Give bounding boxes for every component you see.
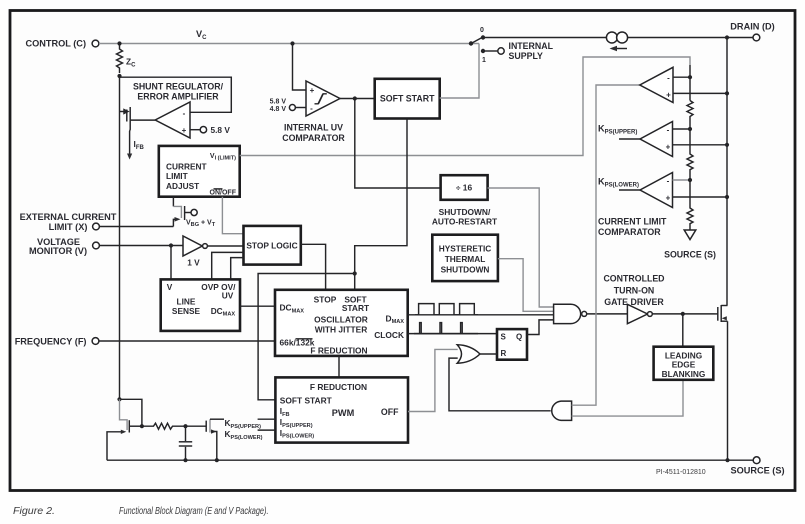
resistor ladder R1 [687, 101, 693, 130]
label INTERNAL UV COMPARATOR [282, 123, 345, 143]
svg-text:CURRENT LIMIT: CURRENT LIMIT [598, 217, 667, 227]
wire bottom source rail [107, 459, 753, 461]
wire current source to drain node [628, 37, 753, 39]
node junction dot gate node [183, 424, 187, 428]
wire NAND output to driver [587, 313, 628, 315]
svg-text:START: START [342, 303, 370, 313]
wire Q output to NAND [527, 320, 554, 335]
svg-text:TURN-ON: TURN-ON [614, 285, 655, 295]
op-amp current limit comparator 3 K_PS(LOWER) [640, 173, 673, 208]
resistor Z_C [117, 44, 137, 74]
wire D_MAX to NAND [408, 314, 554, 316]
svg-text:V: V [167, 282, 173, 292]
wire I_PS(UPPER) into PWM [258, 418, 276, 420]
pin SOURCE (S) bottom right [730, 457, 784, 476]
svg-text:+: + [182, 126, 187, 135]
node junction dot left mosfet drain [140, 424, 144, 428]
svg-text:1 V: 1 V [187, 258, 200, 268]
node junction dot at Z_C top [117, 41, 121, 45]
svg-text:SOFT START: SOFT START [280, 395, 333, 405]
wire comp3 plus stub to drain [673, 196, 728, 198]
svg-text:CONTROLLED: CONTROLLED [603, 273, 664, 283]
wire sense ladder segments [689, 65, 691, 101]
wire UV output to soft start [340, 98, 375, 100]
op-amp internal UV comparator [306, 81, 340, 116]
wire V_C rail from CONTROL to switch pivot [99, 43, 479, 45]
pin FREQUENCY (F) [15, 336, 99, 346]
node junction dots on drain line [725, 91, 729, 95]
wire MOSFET source down to source rail [727, 321, 729, 460]
svg-text:AUTO-RESTART: AUTO-RESTART [432, 217, 498, 227]
wire soft start right to internal supply switch [440, 44, 479, 99]
wire V branch down to line sense [170, 246, 172, 280]
wire OVP from line sense to stop logic [212, 252, 244, 279]
svg-text:PI-4511-012810: PI-4511-012810 [656, 469, 706, 476]
svg-text:+: + [666, 194, 671, 203]
svg-text:Functional Block Diagram (E an: Functional Block Diagram (E and V Packag… [119, 506, 269, 517]
pin EXTERNAL CURRENT LIMIT (X) [20, 212, 117, 232]
svg-text:SOURCE (S): SOURCE (S) [664, 250, 716, 260]
svg-text:DRAIN (D): DRAIN (D) [730, 21, 774, 31]
svg-text:5.8 V: 5.8 V [211, 125, 231, 135]
wire thermal output to NAND [498, 259, 554, 312]
svg-text:÷ 16: ÷ 16 [456, 183, 473, 193]
svg-text:F REDUCTION: F REDUCTION [310, 382, 367, 392]
wire comp2 minus stub [673, 128, 691, 130]
pin DRAIN (D) [730, 21, 774, 41]
transistor bottom-left bias MOSFET [107, 397, 142, 460]
svg-text:CONTROL (C): CONTROL (C) [25, 38, 86, 48]
svg-text:SHUTDOWN/: SHUTDOWN/ [439, 207, 491, 217]
svg-text:LINE: LINE [177, 296, 196, 306]
wire error-amp feedback loop [120, 77, 232, 112]
wire soft start bottom to oscillator/PWM soft-start [355, 119, 407, 290]
wire ON/OFF gray to stop logic [222, 197, 243, 234]
svg-text:-: - [667, 126, 670, 135]
svg-text:PWM: PWM [332, 408, 355, 418]
capacitor bottom bias [179, 426, 192, 460]
node junction dot drain branch [725, 35, 729, 39]
svg-text:SENSE: SENSE [172, 306, 201, 316]
label SHUTDOWN/AUTO-RESTART [432, 207, 498, 227]
wire 1V output to stop logic [207, 245, 243, 247]
svg-text:R: R [501, 349, 507, 358]
box divide-by-16 [441, 175, 488, 200]
box CURRENT LIMIT ADJUST [159, 146, 240, 197]
svg-text:LIMIT: LIMIT [166, 171, 188, 181]
box STOP LOGIC [244, 226, 301, 265]
svg-text:Q: Q [516, 333, 522, 342]
wire OFF output to OR gate [408, 349, 458, 411]
svg-text:OSCILLATOR: OSCILLATOR [314, 314, 368, 324]
svg-text:SOFT START: SOFT START [380, 94, 435, 104]
wire V pin to 1V inverter [100, 245, 184, 247]
label K_PS(LOWER) with output stub [598, 177, 640, 190]
svg-text:Figure 2.: Figure 2. [13, 506, 55, 517]
svg-text:MONITOR (V): MONITOR (V) [29, 246, 87, 256]
svg-text:BLANKING: BLANKING [662, 369, 706, 379]
transistor shunt-regulator MOSFET [120, 107, 156, 131]
wire UV comparator + input from V_C [293, 44, 307, 91]
node junction dot gate node [681, 312, 685, 316]
wire LEB output to AND input [572, 380, 683, 416]
wire error amp + input stub [190, 129, 200, 131]
svg-text:INTERNAL UV: INTERNAL UV [284, 123, 343, 133]
box OSCILLATOR WITH JITTER [275, 290, 408, 356]
svg-text:+: + [666, 143, 671, 152]
node junction dot soft-start branch [353, 271, 357, 275]
wire I_FB rail vertical [119, 76, 121, 399]
label CONTROLLED TURN-ON GATE DRIVER [603, 273, 664, 307]
wire F pin to oscillator [99, 340, 275, 342]
resistor bottom bias [142, 423, 186, 429]
wire comp2 plus stub to drain [673, 144, 728, 146]
label CURRENT LIMIT COMPARATOR [598, 217, 667, 237]
svg-text:CLOCK: CLOCK [374, 330, 404, 340]
box SOFT START [375, 79, 440, 119]
svg-text:SHUTDOWN: SHUTDOWN [441, 265, 490, 275]
label shunt regulator heading [133, 81, 224, 101]
svg-text:SOURCE (S): SOURCE (S) [730, 466, 784, 476]
node junction dots on ladder [688, 75, 692, 79]
svg-text:CURRENT: CURRENT [166, 162, 207, 172]
wire comp1 output to AND input [572, 85, 640, 405]
svg-text:-: - [667, 74, 670, 83]
wire DC_MAX to oscillator [240, 305, 275, 307]
op-amp current limit comparator 2 K_PS(UPPER) [640, 122, 673, 157]
wire OV/UV from line sense to stop logic [231, 258, 244, 280]
wire X pin to transistor [100, 226, 174, 228]
wire gate node down to LEB [682, 314, 684, 347]
wire comp1 minus stub [673, 76, 690, 78]
wire comp3 minus stub gray [673, 179, 691, 181]
gate OR [457, 345, 480, 363]
svg-text:OVP: OVP [201, 282, 219, 292]
switch internal supply selector [469, 27, 504, 64]
pin VOLTAGE MONITOR (V) [29, 237, 99, 256]
svg-text:ADJUST: ADJUST [166, 181, 199, 191]
svg-text:F REDUCTION: F REDUCTION [310, 346, 367, 356]
gate NAND [554, 304, 587, 323]
svg-text:HYSTERETIC: HYSTERETIC [439, 244, 492, 254]
transistor bottom-right sense MOSFET [186, 419, 225, 460]
svg-text:SUPPLY: SUPPLY [509, 51, 544, 61]
svg-text:SHUNT REGULATOR/: SHUNT REGULATOR/ [133, 81, 224, 91]
transistor external-current-limit MOSFET [173, 197, 197, 227]
resistor ladder R2 [687, 129, 693, 180]
wire top rail to current source [483, 37, 606, 39]
current source symbol [606, 32, 627, 51]
wire soft-start branch to PWM [258, 274, 355, 400]
flip-flop S/Q/R latch [497, 329, 527, 360]
svg-text:COMPARATOR: COMPARATOR [598, 227, 661, 237]
wire divide16 output to NAND [488, 188, 554, 307]
svg-text:COMPARATOR: COMPARATOR [282, 133, 345, 143]
svg-text:0: 0 [480, 27, 484, 34]
wire AND output to OR input [449, 358, 551, 411]
buffer 1V comparator [183, 236, 207, 268]
gate AND (mirrored, inputs right) [552, 401, 572, 420]
svg-text:1: 1 [482, 57, 486, 64]
svg-text:+: + [666, 91, 671, 100]
node junction dot UV output [353, 96, 357, 100]
pin 5.8V/4.8V threshold terminal [270, 99, 306, 113]
svg-text:FREQUENCY (F): FREQUENCY (F) [15, 336, 87, 346]
node junction dot at UV comparator branch [290, 41, 294, 45]
svg-text:STOP LOGIC: STOP LOGIC [246, 240, 297, 250]
wire I_FB source arrow [127, 131, 144, 160]
svg-text:ON/OFF: ON/OFF [210, 190, 237, 197]
pin 5.8 V reference terminal [200, 125, 230, 135]
waveform D_MAX pulses [415, 304, 478, 315]
wire CLOCK to latch S [408, 333, 497, 335]
svg-text:S: S [501, 333, 507, 342]
transistor output MOSFET [715, 305, 728, 322]
node junction dots on source rail [183, 458, 187, 462]
wire STOP LOGIC output to oscillator [301, 244, 326, 289]
svg-text:STOP: STOP [314, 294, 337, 304]
svg-text:OFF: OFF [381, 407, 399, 417]
resistor ladder R3 [687, 180, 693, 230]
wire drain vertical [726, 38, 728, 306]
svg-text:LIMIT (X): LIMIT (X) [49, 222, 88, 232]
box LINE SENSE [161, 279, 240, 331]
label INTERNAL SUPPLY [509, 41, 554, 61]
op-amp current limit comparator 1 [640, 67, 673, 102]
ground SOURCE symbol [664, 230, 716, 260]
node junction dot on V line [169, 243, 173, 247]
wire V_I(LIMIT) gray to comparator ladder [240, 57, 690, 156]
wire F REDUCTION oscillator to PWM [338, 356, 340, 378]
wire UV output down to divide-by-16 [355, 99, 441, 189]
box LEADING EDGE BLANKING [654, 347, 714, 380]
svg-text:-: - [310, 104, 313, 113]
box PWM [275, 377, 408, 442]
svg-text:5.8 V: 5.8 V [270, 99, 287, 106]
svg-text:WITH JITTER: WITH JITTER [315, 324, 368, 334]
svg-text:THERMAL: THERMAL [445, 254, 486, 264]
svg-text:INTERNAL: INTERNAL [509, 41, 554, 51]
svg-text:GATE DRIVER: GATE DRIVER [604, 297, 664, 307]
wire driver output to MOSFET gate [652, 313, 714, 315]
wire comp1 plus stub to drain [673, 92, 727, 94]
node junction dot below Z_C [117, 74, 121, 78]
op-amp error amplifier [155, 102, 190, 138]
wire I_PS(LOWER) into PWM [258, 429, 276, 431]
box HYSTERETIC THERMAL SHUTDOWN [432, 235, 498, 281]
svg-text:EXTERNAL CURRENT: EXTERNAL CURRENT [20, 212, 117, 222]
svg-text:+: + [310, 86, 315, 95]
waveform CLOCK spikes [414, 323, 478, 334]
pin CONTROL (C) [25, 38, 98, 48]
svg-text:ERROR AMPLIFIER: ERROR AMPLIFIER [137, 92, 219, 102]
svg-text:-: - [667, 177, 670, 186]
wire OR output to latch R [480, 353, 497, 355]
svg-text:4.8 V: 4.8 V [270, 106, 287, 113]
buffer gate driver [627, 304, 652, 323]
label K_PS(UPPER) with output stub [598, 124, 640, 139]
svg-text:-: - [183, 109, 186, 118]
svg-text:UV: UV [222, 291, 234, 301]
